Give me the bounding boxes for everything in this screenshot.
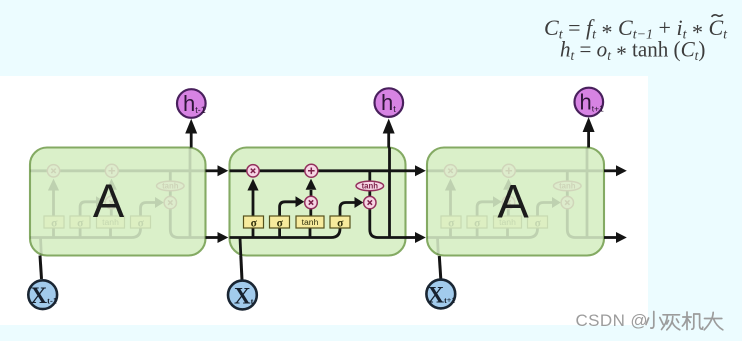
svg-text:CSDN @: CSDN @ (576, 311, 649, 330)
svg-text:A: A (497, 175, 529, 228)
svg-text:A: A (93, 174, 125, 227)
